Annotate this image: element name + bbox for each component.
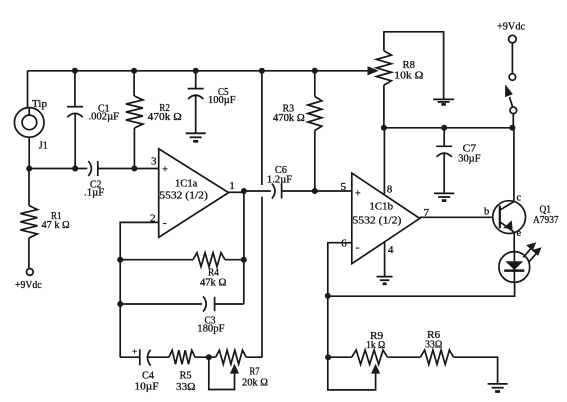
svg-text:470k Ω: 470k Ω [148, 111, 182, 123]
svg-text:180pF: 180pF [197, 323, 224, 335]
svg-text:+: + [355, 189, 361, 200]
svg-text:100µF: 100µF [208, 94, 236, 106]
svg-text:470k Ω: 470k Ω [273, 112, 305, 124]
svg-text:1C1b: 1C1b [370, 201, 394, 213]
svg-text:.1µF: .1µF [84, 187, 104, 199]
svg-text:20k Ω: 20k Ω [242, 377, 268, 389]
svg-text:30µF: 30µF [458, 153, 480, 165]
svg-text:5532 (1/2): 5532 (1/2) [352, 215, 401, 227]
svg-text:1.2µF: 1.2µF [267, 174, 292, 186]
svg-text:.002µF: .002µF [89, 111, 120, 123]
svg-text:e: e [517, 228, 522, 239]
svg-text:10k Ω: 10k Ω [394, 70, 423, 82]
svg-text:+: + [132, 348, 137, 358]
svg-text:b: b [484, 207, 489, 218]
svg-text:8: 8 [387, 183, 393, 195]
svg-text:1: 1 [229, 180, 235, 192]
svg-text:+9Vdc: +9Vdc [15, 279, 42, 291]
svg-text:47 k Ω: 47 k Ω [42, 219, 70, 231]
svg-text:c: c [517, 193, 522, 204]
svg-text:33Ω: 33Ω [176, 381, 196, 393]
svg-text:-: - [356, 240, 360, 254]
svg-text:5532 (1/2): 5532 (1/2) [159, 190, 208, 202]
svg-text:2: 2 [150, 213, 156, 225]
svg-text:7: 7 [424, 207, 430, 219]
svg-text:J1: J1 [39, 140, 48, 152]
svg-text:3: 3 [151, 156, 157, 168]
svg-text:Tip: Tip [32, 98, 48, 110]
svg-text:4: 4 [388, 244, 394, 256]
svg-text:5: 5 [341, 181, 347, 193]
svg-text:R5: R5 [180, 370, 192, 382]
svg-text:+9Vdc: +9Vdc [497, 21, 525, 33]
svg-text:1k Ω: 1k Ω [366, 339, 385, 351]
svg-text:6: 6 [341, 237, 347, 249]
svg-text:-: - [163, 216, 167, 230]
svg-text:1C1a: 1C1a [175, 178, 197, 190]
svg-text:47k Ω: 47k Ω [200, 276, 226, 288]
svg-text:+: + [162, 165, 168, 176]
svg-text:10µF: 10µF [135, 381, 159, 393]
svg-text:33Ω: 33Ω [425, 339, 442, 351]
svg-text:A7937: A7937 [533, 214, 559, 226]
